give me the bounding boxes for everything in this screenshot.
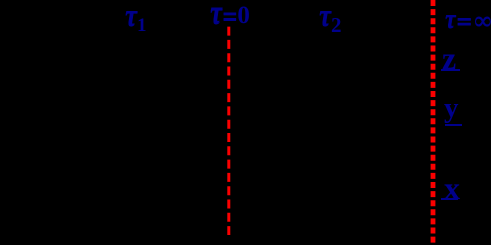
- node tau=infinity label: [445, 8, 491, 32]
- node tau_2 label: [319, 1, 341, 28]
- underline of y: [445, 124, 462, 126]
- wire: red dashed vertical line at tau=infinity: [431, 0, 436, 243]
- node tau_1 label: [125, 1, 146, 28]
- node tau=0 label: [210, 1, 250, 28]
- underline of x: [441, 198, 458, 200]
- node y label: [444, 94, 459, 123]
- underline of z: [441, 69, 460, 71]
- node z label: [442, 42, 456, 74]
- node x label: [444, 172, 460, 204]
